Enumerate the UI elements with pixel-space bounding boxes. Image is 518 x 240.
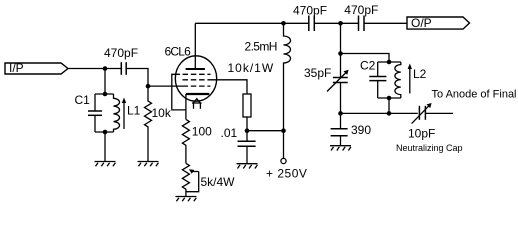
resistor 10k [145,86,152,161]
svg-text:2.5mH: 2.5mH [245,40,277,54]
capacitor 470pF (first coupling) [308,16,310,32]
svg-text:Neutralizing Cap: Neutralizing Cap [396,143,463,153]
node output filter top [338,21,343,26]
wire tank2 down [388,98,390,113]
capacitor 390 [340,113,342,128]
wire screen node to B+ node [247,130,284,132]
capacitor .01 [246,131,248,142]
wire C-in to grid corner [126,69,148,87]
resistor 100 [182,119,189,163]
wire neutralizing rail [341,112,418,114]
node screen bypass [245,128,250,133]
O/P output flag [407,17,470,29]
svg-text:I/P: I/P [9,61,24,75]
tube grid g1 (dashed) [183,85,211,87]
wire branch to C2L2 tank [341,54,390,63]
svg-text:+ 250V: + 250V [266,167,307,181]
potentiometer 5k/4W [182,163,189,196]
svg-text:390: 390 [351,123,371,137]
ground (cathode pot) [175,197,196,202]
capacitor C2 [377,62,379,77]
node tank bottom [103,130,108,135]
node C2L2 top [387,60,392,65]
wire tank to ground [104,132,106,162]
wire tank2 bottom rail [378,97,401,99]
svg-text:O/P: O/P [411,16,432,30]
wire plate top rail [195,22,308,24]
inductor 2.5mH [284,23,291,130]
wire tank2 top rail [378,61,401,63]
I/P input flag [5,63,68,74]
svg-text:.01: .01 [221,126,238,140]
capacitor C1 [94,94,96,111]
capacitor 35pF (variable) [340,54,342,78]
svg-text:C2: C2 [360,59,376,73]
svg-text:10k: 10k [152,106,172,120]
wire input to C-in [68,68,121,70]
wire between coupling caps [314,22,358,24]
wire tank bottom rail [95,131,114,133]
svg-text:L2: L2 [413,67,427,81]
svg-text:L1: L1 [127,104,141,118]
wire B+ down [283,131,285,159]
svg-text:470pF: 470pF [344,3,378,17]
svg-text:100: 100 [192,125,212,139]
svg-text:5k/4W: 5k/4W [201,175,236,189]
svg-text:C1: C1 [75,93,91,107]
tube plate [194,23,196,69]
node grid junction [146,84,151,89]
svg-text:35pF: 35pF [304,66,331,80]
terminal +250V [281,158,286,163]
wire cathode down [185,94,187,119]
capacitor 470pF (input) [120,62,122,75]
capacitor 10pF (neutralizing, variable) [418,106,420,120]
node 390 junction [338,111,343,116]
ground (.01) [237,164,258,169]
svg-text:470pF: 470pF [293,4,327,18]
wire cap to output flag [364,22,407,24]
svg-text:10k/1W: 10k/1W [228,61,275,75]
wire suppressor to cathode hook [172,74,186,110]
wire screen to resistor [211,80,248,94]
wire resistor to node [246,117,248,131]
ground (10k) [138,162,159,167]
svg-text:10pF: 10pF [408,127,435,141]
node C2L2 bottom [387,96,392,101]
node B+ top [281,21,286,26]
tube grid g2 (dashed) [183,79,211,81]
svg-text:6CL6: 6CL6 [165,44,192,58]
op tube 6CL6 envelope [175,56,216,101]
wire tank top rail [95,93,114,95]
wire input junction down to tank [104,69,106,95]
tube cathode [186,93,209,95]
ground (tank) [95,162,116,167]
resistor 10k/1W [243,94,251,117]
node B+ bottom [281,128,286,133]
ground (390) [330,146,351,151]
tube grid g3 (dashed) [183,73,211,75]
tube heater [193,99,200,103]
wire grid junction to tube [148,85,183,87]
svg-text:To Anode of Final: To Anode of Final [432,89,517,101]
wire top node down [340,23,342,53]
capacitor 470pF (second coupling) [358,16,360,32]
svg-text:470pF: 470pF [104,46,138,60]
inductor L1 [114,94,120,132]
node input junction [103,66,108,71]
node tank top [103,92,108,97]
inductor L2 [395,62,401,98]
node tank2 branch [338,51,343,56]
node rail junction [387,111,392,116]
